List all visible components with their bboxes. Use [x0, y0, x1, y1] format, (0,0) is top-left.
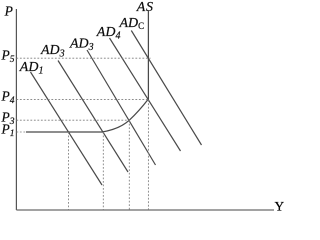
AS curve bend	[102, 99, 148, 132]
dashed P4 guide	[16, 99, 148, 101]
dashed vertical guide at AD1-AS intersection	[68, 132, 70, 210]
ADc line	[131, 31, 201, 146]
dashed P1 guide	[16, 131, 26, 133]
dashed vertical guide at AD3-AS intersection	[128, 120, 130, 210]
svg-text:P: P	[4, 4, 13, 19]
dashed P3 guide	[16, 119, 129, 121]
axis Y (horizontal)	[16, 209, 274, 211]
AD3 line	[87, 50, 156, 165]
AD4 line	[110, 38, 181, 151]
AD1 line	[31, 72, 103, 185]
AD2 line	[58, 61, 128, 173]
dashed P5 guide	[16, 57, 150, 59]
AS curve vertical segment	[147, 11, 149, 100]
svg-text:Y: Y	[275, 199, 284, 214]
dashed vertical guide at AD2-AS intersection	[102, 132, 104, 210]
axis P (vertical)	[15, 9, 17, 210]
svg-text:AS: AS	[136, 0, 154, 15]
dashed vertical guide below AS full-employment output	[147, 100, 149, 210]
AS curve flat segment	[26, 131, 102, 133]
